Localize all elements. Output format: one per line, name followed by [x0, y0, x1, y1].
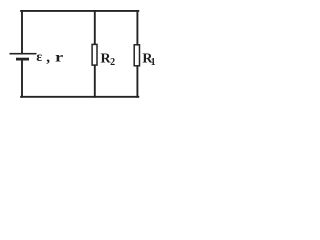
svg-text:2: 2 — [110, 57, 115, 68]
background — [0, 0, 165, 112]
svg-text:1: 1 — [151, 57, 156, 68]
svg-text:,: , — [46, 49, 50, 65]
battery cell long plate (+) — [10, 53, 37, 55]
resistor R2 box — [92, 44, 97, 65]
wire bottom horizontal — [21, 96, 138, 98]
svg-text:ε: ε — [36, 50, 42, 65]
battery cell short thick plate (-) — [16, 58, 29, 61]
wire middle branch upper (top to R2) — [94, 11, 96, 44]
resistor R1 box — [134, 45, 139, 66]
svg-text:r: r — [55, 50, 63, 65]
wire top horizontal — [21, 10, 138, 12]
wire right branch upper (top to R1) — [136, 11, 138, 44]
wire right branch lower (R1 to bottom) — [136, 66, 138, 96]
wire middle branch lower (R2 to bottom) — [94, 66, 96, 97]
wire left vertical lower (battery - terminal to bottom) — [21, 60, 23, 96]
wire left vertical upper (battery + terminal to top) — [21, 11, 23, 53]
